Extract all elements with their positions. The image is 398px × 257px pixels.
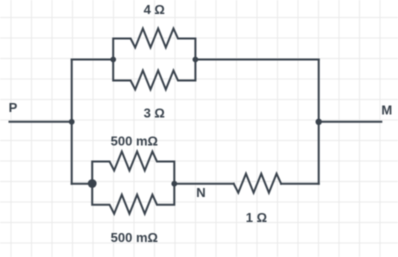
svg-text:4 Ω: 4 Ω [144, 2, 165, 17]
junction dot: upper block left node [110, 57, 116, 63]
wire: right vertical bus [318, 60, 320, 184]
wire: M branch from right bus junction [319, 121, 382, 123]
resistor R4 (500 mohm, bottom branch of lower parallel pair) [92, 184, 174, 214]
resistor R2 (3 ohm, bottom branch of upper parallel pair) [113, 60, 195, 90]
junction dot: lower block left node (large) [88, 179, 97, 188]
svg-text:3 Ω: 3 Ω [144, 106, 165, 121]
svg-text:M: M [381, 102, 392, 117]
wire: left bus to bottom parallel block left node [72, 183, 93, 185]
wire: left bus to top parallel block left node [72, 59, 114, 61]
resistor R1 (4 ohm, top branch of upper parallel pair) [113, 29, 195, 60]
svg-text:500 mΩ: 500 mΩ [111, 230, 158, 245]
svg-text:P: P [9, 100, 18, 115]
resistor R3 (500 mohm, top branch of lower parallel pair) [92, 152, 174, 184]
wire: node N to resistor R5 [174, 183, 233, 185]
junction dot: lower block right node (node N) [171, 181, 177, 187]
wire: terminal P to left junction [10, 121, 72, 123]
wire: R5 to right vertical bus [281, 183, 319, 185]
wire: top block right node to right vertical bus [195, 59, 318, 61]
junction dot: upper block right node [193, 57, 199, 63]
svg-text:500 mΩ: 500 mΩ [111, 134, 158, 149]
resistor R5 (1 ohm) [234, 174, 281, 193]
junction dot: M tap on right bus [316, 119, 322, 125]
wire: left vertical bus [71, 60, 73, 184]
junction dot: P tap on left bus [69, 119, 75, 125]
svg-text:1 Ω: 1 Ω [246, 210, 267, 225]
svg-text:N: N [196, 185, 205, 200]
